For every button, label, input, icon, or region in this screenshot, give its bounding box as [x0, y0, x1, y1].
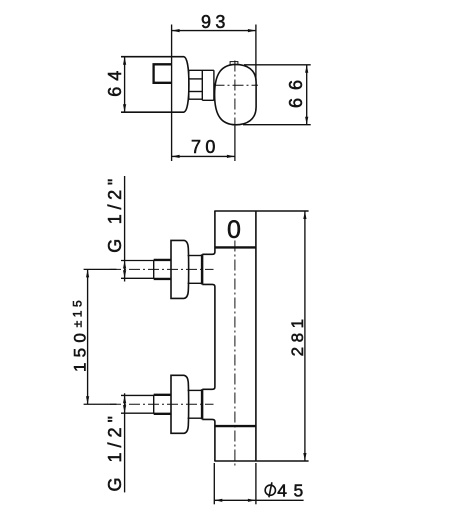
- wire extension line left (shared by dims 93 and 70, passes through valve body): [171, 25, 173, 162]
- wire extension line left of dim 45: [213, 463, 215, 504]
- neck segment 2 right edge: [213, 70, 215, 100]
- neck segment 1 left edge: [188, 70, 190, 99]
- dimension 70 line: [172, 155, 235, 157]
- G 1/2 top leader line: [124, 176, 126, 282]
- neck segment 1 divider line lower: [189, 91, 203, 93]
- handle knob indicator tab: [230, 62, 238, 65]
- union nut: [153, 395, 155, 414]
- threaded pipe tail: [121, 260, 154, 262]
- body seam line lower (thick): [214, 425, 256, 427]
- handle vertical centerline: [234, 61, 236, 127]
- wire extension line top of dim 150: [84, 268, 117, 270]
- union centerline: [110, 403, 214, 405]
- svg-text:150: 150: [70, 333, 89, 372]
- G 1/2 bottom leader line: [124, 393, 126, 492]
- neck segment 2 bottom edge: [202, 99, 214, 101]
- svg-text:0: 0: [227, 216, 241, 244]
- union nut: [153, 260, 155, 279]
- faucet body left edge with inlet bosses: [202, 211, 215, 461]
- valve body top view outline: [121, 57, 189, 112]
- threaded pipe tail: [121, 394, 154, 396]
- inlet escutcheon rosette: [171, 375, 189, 433]
- dimension 64 line: [124, 57, 126, 112]
- body vertical centerline: [234, 241, 236, 467]
- handle horizontal centerline: [214, 84, 259, 86]
- dimension 45 line: [214, 499, 303, 501]
- dimension 150 line: [87, 269, 89, 404]
- handle knob oval (top view): [215, 64, 257, 124]
- dimension 281 line: [304, 211, 306, 461]
- svg-text:281: 281: [288, 319, 307, 357]
- neck segment 1 bottom edge: [189, 98, 203, 100]
- neck segment 1 divider line upper: [189, 78, 203, 80]
- diameter symbol of dim 45: [265, 485, 275, 495]
- union flange face (thick): [201, 389, 204, 419]
- svg-text:G 1/2": G 1/2": [105, 179, 125, 253]
- wire centerline extension to dim 70: [234, 126, 236, 161]
- union centerline: [110, 268, 214, 270]
- wall flange window rectangle (thick): [154, 64, 172, 83]
- faucet body bottom edge + extension for dim 281: [214, 460, 308, 462]
- wire extension line right of dim 45: [255, 463, 257, 504]
- union flange step rect: [188, 255, 203, 257]
- wire extension line bottom of dim 66: [243, 124, 311, 126]
- union flange step rect: [188, 389, 203, 391]
- wire extension line right of dim 93 (to handle knob edge): [255, 25, 257, 80]
- svg-text:±15: ±15: [71, 300, 85, 327]
- wire extension line bottom of dim 150: [84, 403, 117, 405]
- union flange face (thick): [201, 254, 204, 284]
- cartridge neck top edge: [189, 69, 214, 71]
- faucet body right edge: [255, 211, 257, 461]
- wire extension line top of dim 66: [244, 64, 311, 66]
- inlet escutcheon rosette: [171, 240, 189, 298]
- neck middle vertical edge: [201, 70, 203, 100]
- dimension 66 line: [306, 65, 308, 125]
- faucet body top edge + extension for dim 281: [214, 210, 308, 212]
- dimension 93 line: [172, 30, 256, 32]
- body seam line upper (thick): [215, 246, 256, 248]
